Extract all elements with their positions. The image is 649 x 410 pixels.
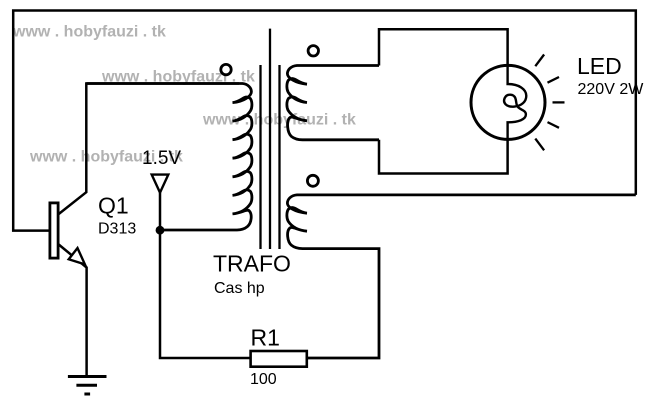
svg-text:LED: LED: [577, 53, 622, 79]
svg-text:1.5V: 1.5V: [142, 148, 181, 169]
svg-text:www . hobyfauzi . tk: www . hobyfauzi . tk: [12, 24, 166, 41]
svg-text:100: 100: [250, 371, 277, 388]
svg-text:TRAFO: TRAFO: [213, 251, 291, 277]
svg-text:D313: D313: [98, 221, 136, 238]
svg-text:R1: R1: [251, 325, 280, 351]
svg-text:Q1: Q1: [98, 193, 129, 219]
svg-text:Cas hp: Cas hp: [214, 280, 265, 297]
svg-text:220V 2W: 220V 2W: [578, 81, 645, 98]
